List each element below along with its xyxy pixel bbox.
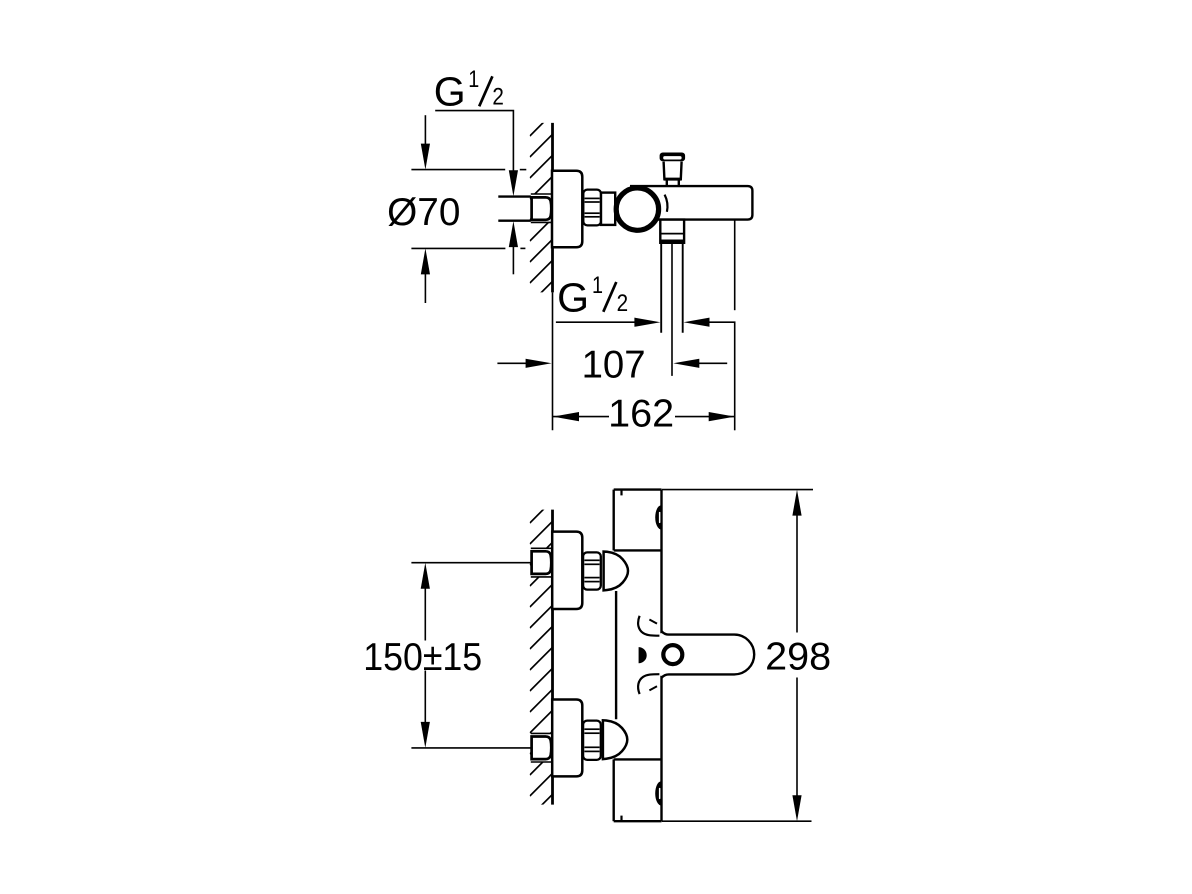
- dimension G1/2 (hose) : label: [557, 272, 628, 320]
- escutcheon upper (bottom view): [552, 532, 582, 609]
- wall line (bottom view): [551, 510, 554, 805]
- dimension 107 : lines and arrows: [497, 359, 727, 368]
- wall hatching (top view): [530, 112, 554, 325]
- svg-text:Ø70: Ø70: [387, 191, 460, 234]
- fillet arc above spout: [638, 616, 659, 636]
- dark half-moon mark (bottom view): [639, 647, 647, 663]
- thermostat handle circle (top view): [616, 188, 658, 230]
- wall hatching (bottom view): [530, 499, 554, 838]
- hose centerline extension: [671, 244, 673, 376]
- svg-text:162: 162: [608, 393, 674, 436]
- svg-text:1: 1: [592, 272, 603, 299]
- square wall fitting lower (bottom view): [531, 733, 553, 762]
- connector cylinder (top view): [601, 193, 615, 225]
- faucet body bar (top view): [630, 186, 752, 220]
- svg-text:G: G: [557, 274, 589, 320]
- shower hose (top view): [661, 244, 683, 333]
- faucet body (bottom view): [614, 490, 662, 822]
- dimension G1/2 (top inlet) : bracket and arrows: [435, 111, 518, 275]
- dimension 298 : lines and arrows: [662, 490, 813, 822]
- dimension G1/2 (top inlet) : label: [434, 66, 504, 115]
- square wall fitting upper (bottom view): [531, 548, 553, 577]
- wall line (top view): [551, 123, 554, 293]
- screw dot lower (bottom view): [655, 781, 661, 805]
- svg-text:2: 2: [492, 84, 504, 111]
- diverter knob (top view): [660, 153, 686, 187]
- svg-text:107: 107: [582, 343, 646, 386]
- dimension 150 plus-minus 15 : lines and arrows: [411, 563, 531, 748]
- shower hose nut (top view): [660, 220, 684, 243]
- svg-text:2: 2: [617, 290, 629, 317]
- S-union nut (top view): [583, 190, 601, 226]
- escutcheon lower (bottom view): [552, 700, 582, 777]
- inlet cone upper (bottom view): [604, 552, 628, 591]
- dimension 162 : lines and arrows: [553, 412, 735, 421]
- square wall fitting (top view): [531, 194, 553, 222]
- svg-text:298: 298: [765, 635, 831, 678]
- hex nut upper (bottom view): [583, 552, 601, 589]
- fillet dash below spout: [649, 686, 657, 690]
- dimension diameter 70 : extension lines and arrows: [411, 115, 526, 303]
- fillet arc below spout: [638, 674, 659, 694]
- aerator circle (bottom view): [663, 645, 682, 664]
- svg-text:G: G: [434, 69, 466, 115]
- hex nut lower (bottom view): [583, 721, 601, 760]
- fillet dash above spout: [649, 620, 657, 624]
- escutcheon flange (top view): [552, 171, 582, 248]
- svg-text:1: 1: [468, 66, 479, 93]
- screw dot upper (bottom view): [655, 505, 661, 529]
- dimension G1/2 (hose) : lines and arrows: [556, 318, 736, 327]
- inlet cone lower (bottom view): [603, 720, 627, 759]
- body arc detail right of circle (top view): [665, 195, 668, 212]
- spout (bottom view): [662, 631, 755, 677]
- wall face extension line (top view): [552, 292, 554, 430]
- svg-text:150±15: 150±15: [363, 636, 482, 679]
- supply pipe (top view): [498, 197, 531, 221]
- spout end extension line (top view): [734, 220, 736, 430]
